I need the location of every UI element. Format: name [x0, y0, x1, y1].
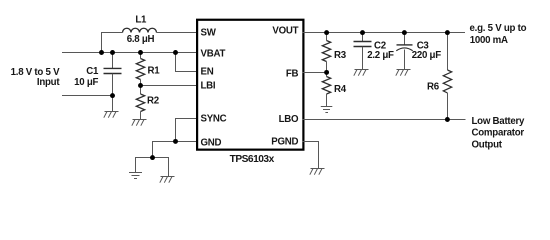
wire: PGND pin to chassis ground	[303, 142, 319, 169]
svg-text:L1: L1	[135, 15, 147, 26]
wire: ground junction left branch to earth ground	[136, 158, 153, 173]
svg-text:C1: C1	[86, 66, 99, 77]
resistor R1	[136, 53, 144, 86]
ground: chassis ground under C1	[104, 112, 119, 118]
svg-text:Comparator: Comparator	[472, 128, 525, 139]
wire: GND pin to ground junction	[153, 142, 198, 158]
svg-text:SYNC: SYNC	[201, 114, 227, 125]
wire: LBO net from LBO pin to comparator output terminal	[303, 119, 466, 121]
wire: VOUT rail from VOUT pin to output terminal	[303, 32, 466, 34]
svg-text:R1: R1	[148, 66, 161, 77]
svg-text:Input: Input	[37, 77, 60, 88]
ground: earth (3-bar) ground left of GND	[129, 173, 142, 179]
resistor R2	[136, 86, 144, 120]
ground: earth (3-bar) ground under R4	[321, 107, 333, 113]
svg-text:PGND: PGND	[271, 137, 298, 148]
node: junction R6 top on VOUT rail	[445, 30, 450, 35]
ground: chassis ground under R2	[132, 120, 147, 126]
label: input source text	[11, 67, 61, 88]
capacitor C2	[354, 33, 372, 70]
svg-text:VOUT: VOUT	[272, 26, 298, 37]
svg-text:EN: EN	[201, 67, 214, 78]
node: junction SYNC/GND	[173, 139, 178, 144]
capacitor C3 (polarized)	[396, 33, 412, 70]
wire: EN tap from VBAT rail to EN pin	[176, 53, 198, 72]
node: junction R3 top on VOUT rail	[324, 30, 329, 35]
ground: chassis ground under C3	[396, 70, 411, 76]
wire: stub from input return down to ground under C1	[112, 96, 114, 112]
resistor R6	[443, 33, 451, 120]
node: junction R1/R2 divider (LBI)	[138, 83, 143, 88]
svg-text:2.2 μF: 2.2 μF	[367, 50, 394, 61]
node: junction R6 bottom on LBO net	[445, 117, 450, 122]
svg-text:e.g. 5 V up to: e.g. 5 V up to	[470, 23, 527, 34]
svg-text:Output: Output	[472, 139, 503, 150]
wire: FB pin to R3/R4 divider	[303, 72, 327, 74]
ground: chassis ground under C2	[354, 70, 369, 76]
svg-text:SW: SW	[201, 28, 217, 39]
label: low battery comparator output text	[472, 116, 526, 150]
node: junction C1 top on VBAT rail	[110, 50, 115, 55]
wire: input return (lower) from input terminal to C1 bottom	[62, 95, 113, 97]
wire: SYNC pin down to GND net	[176, 119, 198, 142]
node: junction ground split	[150, 155, 155, 160]
resistor R4	[322, 73, 330, 107]
svg-text:VBAT: VBAT	[201, 48, 226, 59]
wire: riser from VBAT rail up to L1 left lead	[102, 33, 123, 53]
node: junction L1 tap on VBAT rail	[99, 50, 104, 55]
svg-text:LBO: LBO	[279, 114, 299, 125]
svg-text:R3: R3	[334, 50, 347, 61]
node: junction EN tap on VBAT rail	[173, 50, 178, 55]
svg-text:1000 mA: 1000 mA	[470, 35, 508, 46]
node: junction R3/R4 divider (FB)	[324, 70, 329, 75]
IC U1 TPS6103x	[197, 20, 303, 150]
node: junction C3 top on VOUT rail	[402, 30, 407, 35]
wire: L1 right lead to SW pin	[157, 32, 198, 34]
inductor L1	[123, 28, 157, 32]
wire: ground junction right branch to chassis ground	[153, 158, 169, 177]
label: output terminal text	[470, 23, 527, 46]
svg-text:GND: GND	[201, 137, 222, 148]
capacitor C1	[104, 53, 122, 96]
resistor R3	[322, 33, 330, 73]
node: junction C1 bottom on return line	[110, 93, 115, 98]
svg-text:220 μF: 220 μF	[412, 50, 442, 61]
svg-text:R2: R2	[147, 96, 159, 107]
node: junction R1 top on VBAT rail	[138, 50, 143, 55]
svg-text:R6: R6	[427, 81, 440, 92]
svg-text:TPS6103x: TPS6103x	[230, 154, 275, 165]
svg-text:6.8 μH: 6.8 μH	[127, 34, 155, 45]
ground: chassis ground under PGND	[310, 169, 325, 175]
wire: LBI net from R1/R2 divider to LBI pin	[141, 85, 198, 87]
svg-text:FB: FB	[286, 68, 299, 79]
node: junction C2 top on VOUT rail	[360, 30, 365, 35]
wire: input rail (VBAT net) from input terminal to VBAT pin	[62, 52, 198, 54]
ground: chassis ground right of GND	[160, 177, 175, 183]
svg-text:Low Battery: Low Battery	[472, 116, 526, 127]
svg-text:R4: R4	[334, 84, 347, 95]
svg-text:LBI: LBI	[201, 81, 216, 92]
svg-text:10 μF: 10 μF	[74, 77, 98, 88]
